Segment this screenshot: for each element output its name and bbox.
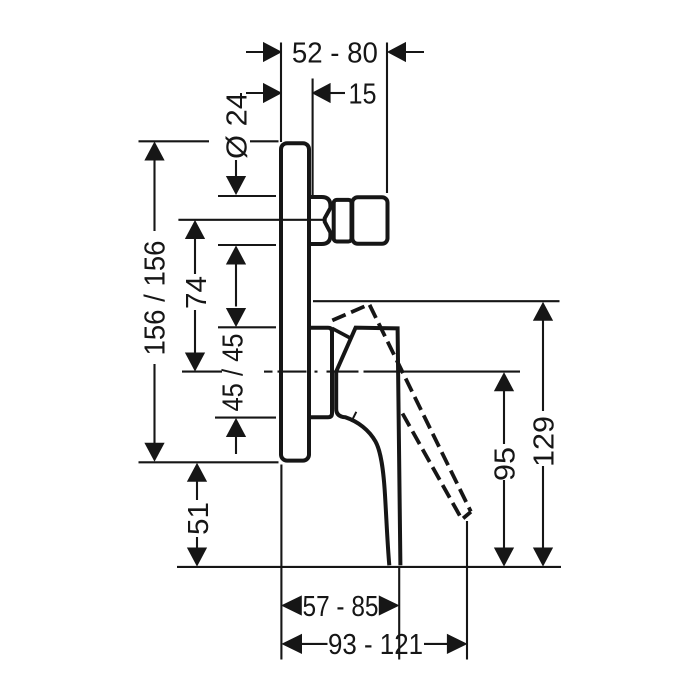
dimension 52-80 — [246, 43, 424, 62]
lever parting tick — [351, 412, 356, 422]
plate bottom reference line — [139, 461, 279, 463]
extension line wall top — [280, 43, 282, 143]
dimension 45/45 — [227, 247, 246, 455]
handle axis centerline — [182, 371, 520, 373]
svg-text:51: 51 — [183, 502, 215, 535]
extension line lever tip — [398, 567, 400, 660]
dimension diameter 24 — [227, 160, 246, 194]
dimension 74 — [186, 221, 205, 371]
svg-text:156 / 156: 156 / 156 — [140, 240, 172, 355]
dashed lever raised position — [332, 304, 471, 519]
spout outer connector — [352, 197, 387, 244]
dimension 93-121 — [282, 635, 466, 654]
dimension 57-85 — [282, 596, 398, 615]
handle base cap — [310, 328, 333, 418]
svg-text:129: 129 — [529, 416, 561, 467]
svg-text:45 / 45: 45 / 45 — [218, 334, 250, 412]
dimension 51 — [188, 464, 207, 566]
svg-text:52 - 80: 52 - 80 — [292, 37, 378, 69]
svg-text:74: 74 — [181, 276, 213, 309]
svg-text:93 - 121: 93 - 121 — [328, 629, 423, 661]
svg-text:Ø 24: Ø 24 — [221, 92, 253, 159]
extension line 15 — [312, 79, 314, 196]
svg-text:95: 95 — [490, 447, 522, 481]
lever solid outline — [336, 328, 400, 566]
spout bottom reference line — [218, 244, 276, 246]
extension line spout tip — [386, 43, 388, 194]
spout check nut — [334, 200, 352, 242]
plate top reference line — [139, 140, 279, 142]
handle top reference line — [218, 326, 276, 328]
dimension 129 — [534, 303, 553, 566]
dimension 95 — [495, 373, 514, 565]
extension line wall bottom — [280, 465, 282, 660]
wall plate — [281, 143, 309, 460]
spout cone adapter — [309, 197, 330, 244]
spout top reference line — [218, 195, 276, 197]
top reference line 129 — [313, 300, 560, 302]
spout centerline — [178, 219, 323, 221]
extension line dashed lever tip — [466, 521, 468, 660]
handle bottom reference line — [215, 417, 276, 419]
dimension 156/156 — [145, 143, 164, 461]
svg-text:15: 15 — [349, 78, 377, 110]
dimension 15 — [246, 84, 345, 103]
svg-text:57 - 85: 57 - 85 — [303, 591, 379, 623]
lever neck line — [332, 328, 350, 337]
ground reference line — [177, 566, 561, 568]
